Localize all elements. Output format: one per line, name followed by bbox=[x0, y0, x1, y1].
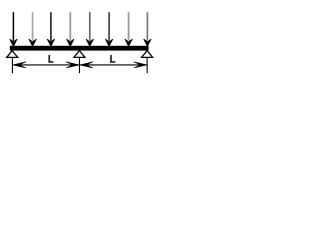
support C (right pin) bbox=[142, 51, 153, 58]
label L span 2 bbox=[110, 55, 115, 63]
load arrow w7 bbox=[125, 12, 132, 46]
load arrow w8 bbox=[144, 12, 151, 46]
extension line at B bbox=[78, 58, 80, 73]
dim arrow left end span 1 bbox=[13, 62, 26, 68]
support A (left pin) bbox=[7, 51, 18, 58]
dim arrow right end span 1 bbox=[66, 62, 79, 68]
dim arrow left end span 2 bbox=[80, 62, 93, 68]
label L span 1 bbox=[48, 55, 53, 63]
extension line at A bbox=[11, 58, 13, 73]
dimension line span 1 bbox=[13, 64, 79, 66]
beam bbox=[10, 46, 149, 51]
load arrow w3 bbox=[47, 12, 54, 46]
dim arrow right end span 2 bbox=[134, 62, 147, 68]
load arrow w5 bbox=[86, 12, 93, 46]
load arrow w6 bbox=[105, 12, 112, 46]
load arrow w2 bbox=[29, 12, 36, 46]
support B (middle pin) bbox=[74, 51, 85, 58]
extension line at C bbox=[146, 58, 148, 73]
load arrow w1 bbox=[10, 12, 17, 46]
load arrow w4 bbox=[67, 12, 74, 46]
dimension line span 2 bbox=[80, 64, 147, 66]
